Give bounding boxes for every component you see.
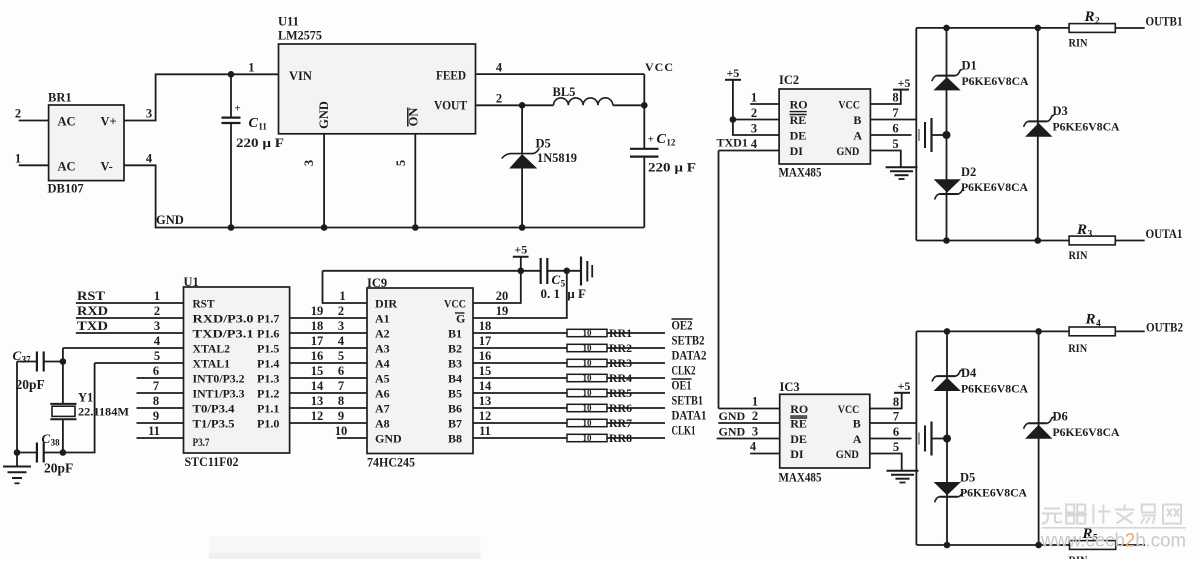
svg-text:DIR: DIR [375, 297, 397, 311]
svg-text:1: 1 [751, 91, 757, 105]
svg-text:7: 7 [893, 410, 899, 424]
svg-text:17: 17 [479, 334, 492, 348]
svg-text:3: 3 [146, 107, 152, 121]
svg-text:1: 1 [752, 395, 758, 409]
svg-text:5: 5 [154, 349, 160, 363]
svg-text:+: + [648, 134, 654, 146]
svg-text:A8: A8 [375, 417, 390, 431]
svg-text:20: 20 [496, 289, 509, 303]
svg-text:22.1184M: 22.1184M [78, 405, 129, 419]
svg-text:4: 4 [338, 334, 345, 348]
svg-text:RR4: RR4 [609, 371, 632, 385]
svg-text:A4: A4 [375, 357, 390, 371]
svg-text:5: 5 [338, 349, 344, 363]
svg-text:A2: A2 [375, 327, 390, 341]
svg-text:RST: RST [193, 297, 215, 311]
svg-text:3: 3 [302, 160, 316, 166]
svg-text:LM2575: LM2575 [278, 29, 322, 43]
svg-text:STC11F02: STC11F02 [185, 455, 239, 469]
svg-text:4: 4 [750, 440, 757, 454]
svg-text:1: 1 [339, 289, 345, 303]
svg-text:2: 2 [496, 92, 502, 106]
svg-text:AC: AC [58, 115, 76, 129]
svg-text:P1.2: P1.2 [257, 387, 279, 401]
svg-text:MAX485: MAX485 [779, 471, 822, 485]
svg-text:D3: D3 [1053, 104, 1068, 118]
svg-text:B4: B4 [448, 372, 462, 386]
svg-text:RXD/P3.0: RXD/P3.0 [193, 312, 254, 326]
svg-text:OUTA1: OUTA1 [1146, 227, 1183, 241]
svg-text:14: 14 [311, 379, 324, 393]
svg-text:11: 11 [148, 424, 160, 438]
svg-text:+: + [234, 103, 240, 115]
svg-text:TXD/P3.1: TXD/P3.1 [193, 327, 254, 341]
svg-text:D6: D6 [1053, 410, 1068, 424]
svg-text:ON: ON [407, 108, 421, 127]
svg-text:D4: D4 [961, 366, 977, 380]
svg-text:A: A [853, 129, 862, 143]
svg-text:RR1: RR1 [609, 326, 632, 340]
svg-text:A5: A5 [375, 372, 390, 386]
svg-text:RR6: RR6 [609, 401, 632, 415]
svg-text:6: 6 [153, 364, 159, 378]
svg-text:GND: GND [375, 432, 402, 446]
svg-text:DATA1: DATA1 [672, 409, 707, 423]
svg-text:1: 1 [15, 152, 21, 166]
svg-text:V+: V+ [101, 115, 117, 129]
svg-text:P1.0: P1.0 [257, 417, 279, 431]
svg-text:D5: D5 [960, 471, 975, 485]
svg-text:5: 5 [394, 160, 408, 166]
svg-text:14: 14 [479, 379, 492, 393]
svg-text:18: 18 [479, 319, 492, 333]
svg-text:B7: B7 [448, 417, 462, 431]
svg-text:VCC: VCC [838, 98, 860, 112]
svg-text:INT0/P3.2: INT0/P3.2 [193, 372, 245, 386]
svg-text:RR8: RR8 [609, 431, 632, 445]
svg-text:B5: B5 [448, 387, 462, 401]
svg-text:16: 16 [479, 349, 492, 363]
svg-text:XTAL1: XTAL1 [193, 357, 231, 371]
svg-text:P1.1: P1.1 [257, 402, 279, 416]
svg-text:RIN: RIN [1068, 341, 1087, 355]
svg-text:TXD: TXD [77, 319, 108, 333]
svg-text:FEED: FEED [436, 69, 466, 83]
svg-text:9: 9 [338, 409, 344, 423]
svg-text:2: 2 [154, 304, 160, 318]
svg-text:12: 12 [479, 409, 492, 423]
svg-text:P1.4: P1.4 [257, 357, 279, 371]
svg-text:VCC: VCC [645, 60, 674, 74]
svg-text:VCC: VCC [444, 297, 466, 311]
svg-text:CLK2: CLK2 [672, 364, 696, 378]
svg-text:5: 5 [892, 137, 898, 151]
svg-text:GND: GND [719, 425, 746, 439]
svg-text:P3.7: P3.7 [193, 435, 210, 449]
svg-text:B1: B1 [448, 327, 462, 341]
svg-text:2: 2 [15, 107, 21, 121]
svg-text:B3: B3 [448, 357, 462, 371]
svg-text:U11: U11 [278, 15, 299, 29]
svg-text:DI: DI [790, 447, 804, 461]
svg-text:7: 7 [153, 379, 159, 393]
svg-text:D5: D5 [536, 137, 551, 151]
svg-text:RR7: RR7 [609, 416, 632, 430]
svg-text:A: A [853, 432, 862, 446]
svg-text:SETB1: SETB1 [672, 394, 704, 408]
svg-text:A7: A7 [375, 402, 390, 416]
svg-text:Y1: Y1 [78, 391, 93, 405]
svg-text:4: 4 [146, 152, 153, 166]
svg-text:B6: B6 [448, 402, 462, 416]
svg-text:1: 1 [248, 61, 254, 75]
svg-text:17: 17 [311, 334, 324, 348]
svg-text:GND: GND [156, 213, 184, 227]
svg-text:IC2: IC2 [779, 73, 799, 87]
svg-text:B: B [853, 113, 861, 127]
svg-text:OUTB2: OUTB2 [1146, 321, 1183, 335]
svg-text:RO: RO [790, 98, 808, 112]
svg-text:RR2: RR2 [609, 341, 632, 355]
svg-text:12: 12 [311, 409, 324, 423]
svg-text:10: 10 [583, 388, 593, 398]
svg-text:9: 9 [153, 409, 159, 423]
svg-text:VOUT: VOUT [434, 99, 468, 113]
svg-text:A3: A3 [375, 342, 390, 356]
svg-text:3: 3 [752, 425, 758, 439]
svg-text:T1/P3.5: T1/P3.5 [193, 417, 235, 431]
svg-text:RIN: RIN [1069, 248, 1088, 262]
svg-text:10: 10 [583, 373, 593, 383]
svg-text:13: 13 [311, 394, 324, 408]
svg-text:10: 10 [583, 343, 593, 353]
svg-text:P1.7: P1.7 [257, 312, 279, 326]
svg-text:20pF: 20pF [44, 461, 73, 476]
svg-text:µ F: µ F [567, 286, 586, 301]
svg-text:13: 13 [479, 394, 492, 408]
svg-text:20pF: 20pF [16, 377, 45, 392]
svg-text:U1: U1 [184, 275, 199, 289]
svg-text:10: 10 [583, 418, 593, 428]
svg-text:DI: DI [790, 144, 804, 158]
svg-text:10: 10 [335, 424, 348, 438]
svg-text:P6KE6V8CA: P6KE6V8CA [961, 382, 1028, 396]
svg-text:+5: +5 [726, 66, 739, 80]
svg-text:VCC: VCC [838, 402, 860, 416]
svg-text:RO: RO [790, 402, 808, 416]
svg-text:10: 10 [583, 328, 593, 338]
svg-text:SETB2: SETB2 [672, 334, 705, 348]
svg-text:P6KE6V8CA: P6KE6V8CA [960, 486, 1027, 500]
svg-text:1N5819: 1N5819 [537, 151, 577, 165]
svg-text:BR1: BR1 [48, 91, 72, 105]
svg-text:BL5: BL5 [553, 85, 576, 99]
svg-text:RXD: RXD [77, 304, 108, 318]
svg-text:15: 15 [479, 364, 492, 378]
svg-text:8: 8 [338, 394, 344, 408]
svg-text:3: 3 [751, 122, 757, 136]
svg-text:IC3: IC3 [780, 380, 800, 394]
svg-text:220 µ F: 220 µ F [236, 135, 284, 150]
svg-text:B8: B8 [448, 432, 462, 446]
svg-text:8: 8 [893, 395, 899, 409]
svg-text:GND: GND [317, 101, 331, 129]
svg-text:2: 2 [338, 304, 344, 318]
svg-text:0. 1: 0. 1 [541, 286, 561, 301]
svg-text:OE1: OE1 [672, 379, 692, 393]
svg-text:3: 3 [338, 319, 344, 333]
svg-text:OUTB1: OUTB1 [1146, 15, 1183, 29]
svg-text:IC9: IC9 [367, 276, 387, 290]
svg-text:A6: A6 [375, 387, 390, 401]
svg-text:18: 18 [311, 319, 324, 333]
svg-text:2: 2 [751, 106, 757, 120]
svg-text:10: 10 [583, 403, 593, 413]
svg-text:TXD1: TXD1 [717, 136, 748, 150]
svg-text:P6KE6V8CA: P6KE6V8CA [1053, 425, 1120, 439]
svg-text:MAX485: MAX485 [779, 166, 822, 180]
svg-text:6: 6 [893, 425, 899, 439]
svg-text:B2: B2 [448, 342, 462, 356]
svg-text:DB107: DB107 [48, 182, 84, 196]
svg-text:10: 10 [583, 358, 593, 368]
svg-text:D1: D1 [962, 58, 977, 72]
svg-text:5: 5 [893, 440, 899, 454]
svg-text:RE: RE [790, 417, 807, 431]
svg-text:XTAL2: XTAL2 [193, 342, 231, 356]
svg-text:7: 7 [338, 379, 344, 393]
svg-text:4: 4 [154, 334, 161, 348]
svg-text:7: 7 [892, 106, 898, 120]
svg-text:CLK1: CLK1 [672, 424, 696, 438]
svg-text:11: 11 [479, 424, 491, 438]
svg-text:RR3: RR3 [609, 356, 632, 370]
svg-text:GND: GND [719, 409, 746, 423]
svg-text:OE2: OE2 [672, 319, 693, 333]
svg-text:19: 19 [496, 304, 509, 318]
svg-text:8: 8 [892, 91, 898, 105]
svg-text:3: 3 [154, 319, 160, 333]
svg-text:P6KE6V8CA: P6KE6V8CA [1053, 120, 1120, 134]
svg-text:+5: +5 [514, 243, 527, 257]
svg-text:P1.3: P1.3 [257, 372, 279, 386]
svg-text:P1.6: P1.6 [257, 327, 279, 341]
svg-text:+5: +5 [898, 76, 911, 90]
svg-text:8: 8 [153, 394, 159, 408]
svg-text:19: 19 [311, 304, 324, 318]
svg-text:AC: AC [58, 159, 76, 173]
svg-text:RIN: RIN [1069, 36, 1088, 50]
svg-text:T0/P3.4: T0/P3.4 [193, 402, 235, 416]
svg-text:P1.5: P1.5 [257, 342, 279, 356]
svg-text:GND: GND [836, 144, 859, 158]
svg-text:4: 4 [496, 61, 503, 75]
svg-text:RIN: RIN [1069, 553, 1088, 559]
svg-text:10: 10 [583, 433, 593, 443]
svg-text:GND: GND [836, 447, 859, 461]
svg-text:1: 1 [154, 289, 160, 303]
svg-text:V-: V- [101, 159, 113, 173]
svg-text:2: 2 [752, 409, 758, 423]
svg-text:220 µ F: 220 µ F [648, 160, 696, 175]
svg-text:P6KE6V8CA: P6KE6V8CA [961, 180, 1028, 194]
svg-text:VIN: VIN [289, 69, 312, 83]
svg-text:B: B [853, 417, 861, 431]
svg-text:15: 15 [311, 364, 324, 378]
svg-text:+5: +5 [898, 379, 911, 393]
svg-text:G: G [456, 312, 465, 326]
svg-text:16: 16 [311, 349, 324, 363]
svg-text:DE: DE [790, 432, 807, 446]
svg-text:DATA2: DATA2 [672, 349, 707, 363]
svg-text:4: 4 [751, 137, 758, 151]
svg-text:DE: DE [790, 129, 807, 143]
svg-text:D2: D2 [961, 165, 976, 179]
svg-text:74HC245: 74HC245 [367, 456, 415, 470]
svg-text:P6KE6V8CA: P6KE6V8CA [962, 74, 1029, 88]
svg-text:INT1/P3.3: INT1/P3.3 [193, 387, 245, 401]
svg-text:6: 6 [892, 122, 898, 136]
svg-text:6: 6 [338, 364, 344, 378]
svg-text:www.cecb2b.com: www.cecb2b.com [1040, 531, 1186, 552]
svg-text:RST: RST [77, 289, 106, 303]
svg-text:RR5: RR5 [609, 386, 632, 400]
svg-text:A1: A1 [375, 312, 390, 326]
